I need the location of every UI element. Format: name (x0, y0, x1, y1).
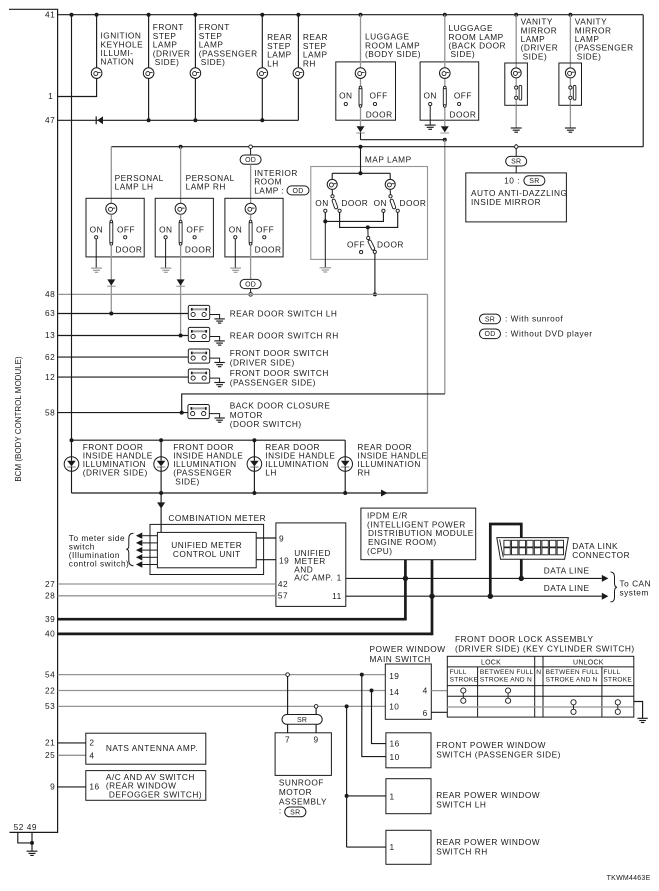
rear power window switch LH label (436, 790, 540, 810)
svg-text:19: 19 (279, 555, 289, 565)
key cylinder column dividers (478, 656, 602, 717)
wire vanity driver (515, 15, 517, 106)
wire SR oval to sunroof box (288, 724, 317, 733)
arrow on illumination bottom rail (381, 490, 388, 497)
wire pin 49 (30, 832, 34, 851)
arrow personal LH (107, 279, 116, 286)
wire pin 54 branch to front PW switch (362, 675, 386, 757)
DOOR label personal LH (116, 245, 143, 255)
pin 49 label (27, 822, 37, 832)
svg-text:MAP LAMP: MAP LAMP (365, 155, 412, 165)
lamp luggage room (body side) (355, 68, 366, 79)
svg-text:SR: SR (485, 316, 495, 323)
svg-text:STROKE AND N: STROKE AND N (480, 676, 532, 683)
diode on line 47 (96, 116, 103, 124)
key cylinder lock row wire (447, 695, 634, 697)
svg-text:RH: RH (303, 58, 316, 68)
svg-text:STROKE: STROKE (603, 676, 632, 683)
to CAN system brace (611, 572, 618, 602)
DOOR contact map bottom (373, 240, 404, 254)
junction personal RH / line 13 (179, 334, 183, 338)
column header BETWEEN FULL STROKE AND N (lock) (480, 669, 534, 684)
luggage room lamp (back door side) label (449, 23, 507, 59)
svg-text:22: 22 (45, 685, 55, 695)
wire pin 40 CAN (58, 560, 432, 636)
ground vanity passenger (565, 105, 576, 132)
svg-text:A/C AMP.: A/C AMP. (294, 573, 333, 583)
to meter side switch label (69, 533, 130, 569)
node sunroof tap on 53 (314, 705, 318, 709)
svg-text:10: 10 (390, 752, 400, 762)
ground back door closure (209, 414, 225, 423)
to CAN system label (620, 579, 652, 598)
pin 40 label (45, 629, 55, 639)
wire pin 9 (58, 786, 86, 788)
ON contact luggage body (339, 91, 352, 106)
wire pin 25 (58, 754, 86, 756)
svg-text:FULL: FULL (450, 669, 467, 676)
svg-text:ON: ON (159, 224, 172, 234)
unified meter and A/C amp box (276, 523, 346, 607)
switch luggage back door (443, 86, 446, 107)
svg-text:4: 4 (89, 750, 94, 760)
node interior room lamp tap (249, 145, 253, 149)
data line 1 wire (346, 576, 602, 581)
meter pin 11 label (332, 591, 342, 601)
junction personal LH / line 63 (109, 312, 113, 316)
wire map DOOR join (340, 212, 398, 229)
luggage room lamp (body side) box (336, 62, 396, 120)
data link connector label (572, 541, 630, 560)
svg-text:39: 39 (45, 614, 55, 624)
A/C and AV switch label (106, 772, 202, 799)
OD connector (interior feed) (240, 155, 261, 164)
auto anti-dazzling inside mirror box (466, 173, 567, 222)
svg-text:28: 28 (45, 590, 55, 600)
DOOR label personal RH (185, 245, 212, 255)
svg-text:REAR DOOR SWITCH RH: REAR DOOR SWITCH RH (230, 330, 339, 340)
rear power window switch LH box (386, 779, 431, 814)
wire pin 53 branch down (346, 706, 348, 847)
svg-text:(DRIVER SIDE) (KEY CYLINDER SW: (DRIVER SIDE) (KEY CYLINDER SWITCH) (455, 644, 635, 654)
pin 41 label (45, 9, 55, 19)
led rear door inside handle illumination RH (338, 440, 353, 493)
svg-text:DOOR: DOOR (400, 198, 427, 208)
svg-text:: With sunroof: : With sunroof (505, 314, 563, 324)
svg-text:SIDE): SIDE) (201, 57, 226, 67)
svg-text:19: 19 (389, 671, 399, 681)
svg-text:41: 41 (45, 9, 55, 19)
SR connector sunroof (282, 715, 322, 725)
unified meter and A/C amp label (294, 548, 333, 583)
lamp vanity mirror (driver side) (511, 68, 521, 78)
personal lamp LH label (115, 173, 164, 192)
IPDM E/R box (361, 508, 476, 560)
svg-text:BETWEEN FULL: BETWEEN FULL (546, 669, 600, 676)
ground key cylinder switch (634, 702, 648, 723)
svg-text:SWITCH (PASSENGER SIDE): SWITCH (PASSENGER SIDE) (436, 750, 561, 760)
wire to rear PW LH (347, 795, 386, 797)
luggage room lamp (back door side) box (420, 62, 479, 120)
svg-text:(DRIVER SIDE): (DRIVER SIDE) (83, 468, 148, 478)
ground interior room (230, 239, 241, 272)
key cylinder header divider (447, 666, 634, 668)
data line 2 wire (346, 594, 602, 599)
wire map lamp to line 48 (373, 254, 377, 297)
svg-text:ON: ON (423, 91, 436, 101)
svg-text:NATION: NATION (101, 57, 135, 67)
wire luggage back door side (444, 15, 446, 126)
svg-text:(CPU): (CPU) (367, 546, 393, 556)
lamp interior room (245, 203, 256, 214)
mirror pin 10 label (504, 175, 545, 185)
wire pin 41 left drop (70, 15, 74, 443)
wire pin 13 (58, 335, 189, 337)
svg-text:SIDE): SIDE) (451, 49, 476, 59)
wire pin 1 (58, 78, 97, 96)
wire sunroof pin 9 drop (315, 708, 317, 714)
lock contacts full stroke (461, 688, 466, 703)
wire pin 53 (58, 704, 386, 708)
svg-text:OD: OD (245, 281, 256, 288)
wire personal RH feed (180, 147, 182, 204)
column header N (536, 669, 541, 676)
svg-text:DOOR: DOOR (116, 245, 143, 255)
wire personal LH to pin 63 (110, 245, 112, 313)
svg-text:9: 9 (279, 534, 284, 544)
rear PW LH pin 1 (390, 792, 395, 802)
data link connector inner slant (500, 540, 504, 558)
svg-text:40: 40 (45, 629, 55, 639)
svg-text:FRONT POWER WINDOW: FRONT POWER WINDOW (436, 740, 546, 750)
lamp: front step lamp passenger wire (194, 15, 196, 121)
ground front door switch passenger (210, 378, 225, 387)
switch personal RH (179, 214, 182, 245)
sunroof motor assembly box (275, 733, 331, 776)
data link connector drop (thick) (490, 524, 521, 596)
map lamp box (311, 167, 428, 260)
meter side switch arrows (136, 533, 158, 568)
svg-text:TKWM4463E: TKWM4463E (607, 875, 651, 882)
wire map lamp bulbs bar (332, 173, 390, 179)
front door switch (driver side) label (230, 348, 329, 367)
column header FULL STROKE (lock) (450, 669, 479, 684)
svg-text:SIDE): SIDE) (523, 51, 548, 61)
rear PW RH pin 1 (390, 842, 395, 852)
lamp: rear step lamp LH wire (261, 15, 263, 121)
svg-text:1: 1 (390, 792, 395, 802)
svg-text:SR: SR (290, 809, 300, 816)
lamp ignition keyhole illumination (91, 68, 102, 79)
svg-text:48: 48 (45, 289, 55, 299)
OFF contact map (347, 240, 365, 254)
key cylinder unlock row wire (447, 706, 634, 708)
interior room lamp box (225, 198, 283, 257)
wire luggage body side (360, 15, 362, 126)
vanity driver switch contacts (515, 85, 522, 100)
wire main switch 6 to key cylinder (431, 711, 447, 713)
lamp personal LH (106, 203, 117, 214)
lamp map LH (327, 179, 337, 189)
svg-text:UNLOCK: UNLOCK (573, 659, 604, 666)
svg-text:25: 25 (45, 750, 55, 760)
svg-text:9: 9 (314, 735, 319, 745)
NATS pin 2 (89, 738, 94, 748)
svg-text:OFF: OFF (256, 224, 274, 234)
back door closure motor label (230, 401, 331, 430)
data line 1 label (544, 565, 590, 575)
rear door inside handle illumination LH label (265, 442, 335, 478)
rear door switch LH label (230, 308, 338, 318)
svg-text:(DRIVER SIDE): (DRIVER SIDE) (230, 357, 295, 367)
svg-text:(BODY SIDE): (BODY SIDE) (365, 49, 421, 59)
pin 27 label (45, 579, 55, 589)
svg-text:ASSEMBLY: ASSEMBLY (279, 796, 327, 806)
svg-text:LAMP :: LAMP : (254, 185, 284, 195)
svg-text:SIDE): SIDE) (155, 57, 180, 67)
svg-text:COMBINATION METER: COMBINATION METER (168, 513, 266, 523)
lamp vanity mirror (passenger side) (565, 68, 575, 78)
wire map ON join (323, 212, 383, 223)
vanity mirror lamp (driver side) label (521, 17, 559, 62)
front door inside handle illumination passenger label (173, 442, 243, 486)
rear door inside handle illumination RH label (357, 442, 427, 478)
UNLOCK label (573, 659, 604, 666)
rear step lamp RH label (303, 32, 328, 68)
sunroof pin 9 label (314, 735, 319, 745)
svg-text:1: 1 (48, 91, 53, 101)
svg-text:SIDE): SIDE) (577, 51, 602, 61)
combination meter label (168, 513, 266, 523)
switch luggage body side (359, 86, 362, 107)
DOOR label luggage back (450, 109, 477, 119)
svg-text:POWER WINDOW: POWER WINDOW (370, 644, 446, 654)
IPDM E/R label (367, 510, 474, 556)
door switch rear RH (188, 327, 209, 341)
svg-text:LH: LH (265, 468, 277, 478)
wire interior lamp feed bus (111, 145, 643, 149)
rear power window switch RH label (436, 837, 540, 857)
svg-text:system: system (620, 587, 649, 597)
vanity passenger switch contacts (569, 85, 576, 100)
svg-text:53: 53 (45, 701, 55, 711)
lamp map RH (385, 179, 395, 189)
svg-text:1: 1 (390, 842, 395, 852)
svg-text:OFF: OFF (186, 224, 204, 234)
svg-text:52: 52 (14, 822, 24, 832)
A/C and AV switch box (86, 771, 206, 801)
svg-text:OFF: OFF (454, 91, 472, 101)
vanity mirror lamp (passenger side) box (559, 63, 582, 105)
svg-text:7: 7 (285, 735, 290, 745)
main switch pin 19 (389, 671, 399, 681)
junction rear PW LH (345, 794, 349, 798)
combination meter box (150, 524, 264, 574)
map OFF/DOOR switch (367, 227, 376, 250)
personal lamp LH box (86, 198, 144, 257)
svg-text:49: 49 (27, 822, 37, 832)
svg-text:DATA LINE: DATA LINE (544, 583, 590, 593)
svg-text:LAMP LH: LAMP LH (115, 182, 154, 192)
power window main switch label (370, 644, 446, 664)
wire to rear PW RH (347, 846, 386, 848)
OD connector (interior down) (240, 279, 261, 288)
sunroof pin 7 label (285, 735, 290, 745)
svg-text:9: 9 (50, 782, 55, 792)
pin 21 label (45, 738, 55, 748)
ground rear door switch RH (210, 337, 225, 346)
column header BETWEEN FULL STROKE AND N (unlock) (546, 669, 600, 684)
svg-text:16: 16 (89, 782, 99, 792)
svg-text:57: 57 (278, 591, 288, 601)
svg-text:STROKE: STROKE (450, 676, 479, 683)
svg-text:12: 12 (45, 372, 55, 382)
svg-text:BETWEEN FULL: BETWEEN FULL (480, 669, 534, 676)
svg-text:ON: ON (339, 91, 352, 101)
svg-text:OD: OD (293, 188, 304, 195)
svg-text:10 :: 10 : (504, 175, 520, 185)
wire interior lamp down (250, 245, 252, 279)
wire pin 22 branch to front PW switch (372, 691, 386, 744)
pin 53 label (45, 701, 55, 711)
svg-text:DEFOGGER SWITCH): DEFOGGER SWITCH) (109, 789, 202, 799)
svg-text:6: 6 (423, 708, 428, 718)
wire line 48 wrap down (427, 294, 429, 493)
node interior / line 48 (249, 293, 253, 297)
lamp front step (passenger side) (190, 68, 201, 79)
SR connector (mirror feed) (506, 149, 527, 166)
data line 2 label (544, 583, 590, 593)
front door lock assembly label (455, 634, 635, 654)
front PW switch pin 10 (390, 752, 400, 762)
BCM (Body Control Module) outline (9, 9, 58, 832)
front door inside handle illumination driver label (83, 442, 153, 478)
main switch pin 10 (389, 701, 399, 711)
wire pin 22 (58, 689, 386, 693)
wire pin 27 to meter 42 (58, 579, 289, 589)
column header FULL STROKE (unlock) (603, 669, 632, 684)
front PW switch pin 16 (390, 738, 400, 748)
unified meter control unit label (171, 540, 242, 559)
NATS antenna amp label (106, 743, 198, 753)
svg-text:LAMP RH: LAMP RH (186, 182, 226, 192)
pin 9 label (50, 782, 55, 792)
lock contacts between (506, 688, 511, 703)
led rear door inside handle illumination LH (247, 440, 262, 493)
data link connector body (497, 538, 569, 560)
drawing number (607, 875, 651, 882)
wire join luggage lamps (361, 138, 447, 142)
svg-text:16: 16 (390, 738, 400, 748)
key cylinder header divider 2 (447, 685, 634, 687)
svg-text:DOOR: DOOR (255, 245, 282, 255)
pin 62 label (45, 352, 55, 362)
svg-text:FULL: FULL (603, 669, 620, 676)
NATS pin 4 (89, 750, 94, 760)
svg-text:(DOOR SWITCH): (DOOR SWITCH) (230, 419, 302, 429)
personal lamp RH label (186, 173, 235, 192)
ground BCM (27, 851, 38, 855)
pin 1 label (48, 91, 53, 101)
lamp personal RH (175, 203, 186, 214)
meter pin 1 label (337, 573, 342, 583)
wire pin 52 (18, 832, 32, 843)
svg-text:OD: OD (485, 331, 496, 338)
svg-text:: Without DVD player: : Without DVD player (505, 329, 592, 339)
led front door inside handle illumination (passenger) (154, 440, 169, 493)
wire pin 63 (58, 313, 189, 315)
arrow to combination meter (157, 502, 165, 508)
OFF contact personal LH (117, 224, 135, 239)
svg-text:MAIN SWITCH: MAIN SWITCH (370, 654, 431, 664)
svg-text:ON: ON (229, 224, 242, 234)
OFF contact interior (256, 224, 274, 239)
pin 47 label (45, 115, 55, 125)
map switch LH (331, 189, 338, 209)
svg-text:DOOR: DOOR (366, 109, 393, 119)
auto anti-dazzling mirror label (471, 188, 567, 207)
OFF contact personal RH (186, 224, 204, 239)
svg-text:FRONT DOOR LOCK ASSEMBLY: FRONT DOOR LOCK ASSEMBLY (455, 634, 593, 644)
ground vanity driver (511, 105, 522, 132)
door switch back door closure (188, 405, 209, 419)
lamp front step (driver side) (143, 68, 154, 79)
pin 22 label (45, 685, 55, 695)
wire interior room lamp feed (250, 149, 252, 156)
ON contact map LH (315, 198, 328, 213)
ground map lamp (320, 221, 332, 272)
svg-text:SR: SR (529, 178, 539, 185)
DOOR contact map RH (396, 198, 426, 213)
data line 1 arrow (602, 575, 609, 582)
svg-text:10: 10 (389, 701, 399, 711)
door switch front driver (188, 349, 209, 363)
svg-text:INSIDE MIRROR: INSIDE MIRROR (471, 197, 541, 207)
svg-text:OFF: OFF (117, 224, 135, 234)
data line 2 arrow (602, 593, 609, 600)
meter side switch brace (126, 533, 133, 566)
svg-text:SWITCH LH: SWITCH LH (436, 799, 486, 809)
wire pin 58 (58, 412, 188, 414)
wire personal RH to pin 13 (180, 245, 182, 335)
lamp rear step RH (293, 68, 304, 79)
pin 52 label (14, 822, 24, 832)
svg-text:63: 63 (45, 308, 55, 318)
svg-text:ON: ON (315, 198, 328, 208)
vanity mirror lamp (driver side) box (505, 63, 528, 105)
pin 13 label (45, 330, 55, 340)
wire pin 12 (58, 376, 189, 378)
ignition keyhole illumination label (101, 31, 144, 67)
wire pin 54 (58, 673, 386, 677)
svg-text:OD: OD (245, 157, 256, 164)
wire map lamp feed (359, 147, 363, 176)
node auto anti-dazzling mirror tap (514, 144, 519, 149)
front step lamp (passenger side) label (199, 22, 258, 67)
svg-text:ON: ON (374, 198, 387, 208)
wire pin 47 (58, 118, 299, 122)
svg-text:47: 47 (45, 115, 55, 125)
wire pin 48 (58, 293, 428, 295)
lamp rear step LH (257, 68, 268, 79)
A/C pin 16 (89, 782, 99, 792)
OFF contact luggage body (370, 91, 388, 106)
svg-text:(PASSENGER SIDE): (PASSENGER SIDE) (230, 377, 316, 387)
ON contact personal LH (90, 224, 103, 239)
ground personal RH (160, 239, 171, 272)
node sunroof tap on 54 (286, 673, 290, 677)
pin 58 label (45, 407, 55, 417)
